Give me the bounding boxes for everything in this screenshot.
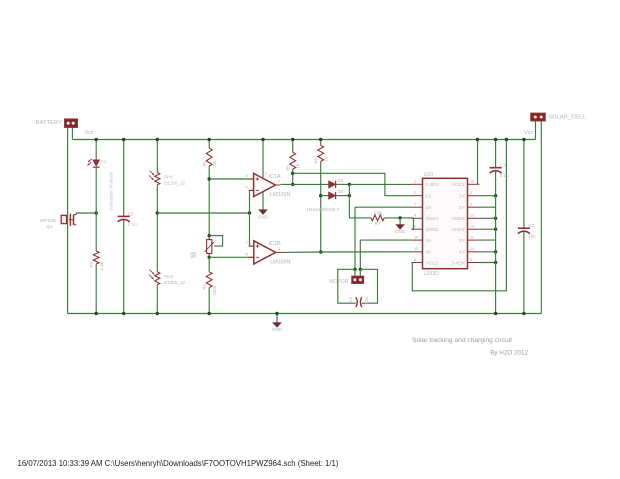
svg-text:10k: 10k: [212, 160, 217, 168]
photoresistor PH2 D1150_12: [149, 270, 186, 285]
svg-text:L293D: L293D: [424, 271, 440, 277]
svg-text:LM339N: LM339N: [270, 192, 290, 198]
svg-text:BATTERY: BATTERY: [36, 120, 62, 126]
svg-text:12: 12: [470, 214, 474, 218]
wire GND4 to bus: [479, 228, 495, 230]
svg-text:Vcc: Vcc: [524, 130, 533, 136]
svg-text:9: 9: [470, 258, 472, 262]
resistor R1: [202, 148, 217, 168]
capacitor C4: [518, 223, 536, 238]
wire rail to C2: [123, 140, 125, 217]
junction rail x506: [505, 138, 508, 141]
wire motor pins stubs: [355, 269, 360, 276]
wire rail to R5: [292, 140, 294, 153]
wire VCC2 route to Vcc bus: [412, 140, 506, 291]
wire trimpot body: [208, 236, 210, 258]
svg-text:7: 7: [414, 203, 416, 207]
svg-text:GND4: GND4: [451, 227, 464, 232]
wire R5 to junction y173: [292, 169, 294, 184]
pin 9 3-4EN U20: [451, 258, 479, 265]
svg-text:10u: 10u: [364, 296, 369, 304]
junction bottom x523: [522, 312, 525, 315]
svg-text:R5: R5: [285, 164, 290, 170]
op-amp U20 L293D body: [423, 172, 468, 277]
svg-text:R2: R2: [202, 283, 207, 289]
junction bus x495 row 1Y: [494, 194, 497, 197]
junction x292 y173: [291, 172, 294, 175]
capacitor C3 snubber: [348, 296, 369, 307]
wire 3A corner to motor pin 2: [360, 239, 411, 241]
wire R7 to GND1 pin: [384, 217, 413, 219]
svg-text:0.1u: 0.1u: [500, 173, 509, 178]
svg-text:4: 4: [245, 185, 247, 189]
LED D1: [87, 159, 106, 167]
svg-text:GND2: GND2: [426, 227, 439, 232]
wire rail to PH1: [156, 140, 158, 173]
junction bus x495 row 3-4EN: [494, 261, 497, 264]
svg-text:MOTOR: MOTOR: [329, 279, 348, 285]
op-amp IC1A LM339N: [245, 171, 290, 198]
junction node A: [95, 211, 98, 214]
junction node B x157 y213: [156, 211, 159, 214]
pin 12 GND3 U20: [451, 214, 479, 221]
svg-text:GND3: GND3: [451, 216, 464, 221]
wire R1 to junction y179: [208, 166, 210, 235]
svg-text:2Y: 2Y: [459, 205, 466, 210]
junction bus x495 row GND3: [494, 217, 497, 220]
svg-text:PH2: PH2: [164, 274, 173, 279]
svg-text:1k: 1k: [296, 163, 301, 168]
wire 2A row to motor column: [355, 206, 412, 208]
junction rail x157: [156, 138, 159, 141]
trimpot R3 wiper loop: [209, 236, 222, 247]
wire 1Y to bus: [479, 195, 495, 197]
status bar text: [18, 459, 339, 468]
wire GND bottom rail: [68, 313, 542, 315]
wire motor pin1 vertical: [354, 207, 356, 269]
wire trimpot to IC1B noninverting input: [209, 256, 254, 258]
pin 2 1A U20: [412, 191, 433, 198]
transistor Q1 IRF540: [40, 214, 76, 230]
diode D2 1N4148: [329, 189, 344, 199]
capacitor C1: [490, 162, 510, 178]
wire 3Y to bus: [479, 239, 495, 241]
svg-text:4A: 4A: [426, 250, 433, 255]
svg-text:6: 6: [246, 252, 248, 256]
junction bus x495 row 4Y: [494, 250, 497, 253]
svg-text:C2: C2: [128, 211, 134, 216]
junction bottom x495: [494, 312, 497, 315]
wire 2Y to bus: [479, 206, 495, 208]
resistor R5: [285, 152, 300, 170]
svg-text:100k: 100k: [212, 285, 217, 295]
wire solar left pin to rail: [535, 121, 537, 140]
svg-text:GND: GND: [395, 229, 406, 234]
label diodes value 1N4148DO35-7: [306, 207, 340, 213]
svg-text:1Y: 1Y: [459, 194, 466, 199]
svg-text:2: 2: [414, 191, 416, 195]
svg-text:U20: U20: [424, 172, 434, 178]
capacitor C2: [118, 211, 137, 226]
svg-text:R6: R6: [313, 157, 318, 163]
svg-text:C1: C1: [500, 162, 506, 167]
node Vcc label right: [524, 130, 533, 136]
wire D3 cathode stub: [336, 183, 350, 185]
svg-text:Vcc: Vcc: [85, 130, 94, 136]
pin 10 3A U20: [412, 236, 433, 243]
label Darlington note: [109, 171, 114, 211]
svg-text:0.1u: 0.1u: [128, 221, 137, 226]
svg-text:100k: 100k: [373, 211, 383, 216]
svg-text:SOLAR_CELL: SOLAR_CELL: [548, 115, 586, 121]
wire node B to comparator inputs: [157, 212, 249, 214]
ground symbol near R7: [395, 218, 406, 234]
svg-text:D2: D2: [338, 189, 344, 194]
svg-text:2A: 2A: [426, 205, 433, 210]
svg-text:D3: D3: [338, 178, 344, 183]
node Vcc label left: [85, 130, 94, 136]
wire trimpot to R2: [208, 257, 210, 272]
svg-text:4Y: 4Y: [459, 250, 466, 255]
title text: [412, 337, 512, 344]
svg-text:3Y: 3Y: [459, 238, 466, 243]
svg-text:5: 5: [414, 225, 416, 229]
svg-text:3-4EN: 3-4EN: [451, 260, 464, 265]
wire to IC1B input: [250, 213, 254, 246]
wire motor snubber loop right: [360, 269, 377, 303]
junction x349 y195: [348, 194, 351, 197]
wire PH2 to bottom rail: [156, 285, 158, 314]
svg-text:D1150_12: D1150_12: [164, 280, 185, 285]
pin 7 2A U20: [412, 203, 433, 210]
junction x292 y184 on IC1A output: [291, 183, 294, 186]
svg-text:1.5k: 1.5k: [99, 261, 104, 270]
wire VCC1 to rail: [477, 140, 479, 185]
junction x349 y184: [348, 183, 351, 186]
wire R2 to bottom rail: [208, 288, 210, 314]
svg-text:Solar tracking and charging ci: Solar tracking and charging circuit: [412, 337, 512, 344]
junction bottom x209: [208, 312, 211, 315]
wire C2 to bottom rail: [123, 220, 125, 314]
svg-text:C4: C4: [528, 223, 534, 228]
svg-text:1N4148DO35-7: 1N4148DO35-7: [306, 207, 340, 213]
pin 15 4A U20: [412, 247, 433, 254]
svg-text:4: 4: [414, 214, 416, 218]
junction bus x495 row GND4: [494, 228, 497, 231]
svg-text:8: 8: [414, 258, 416, 262]
junction x209 y179: [208, 177, 211, 180]
wire motor snubber loop left: [338, 269, 356, 303]
svg-text:R4: R4: [89, 261, 94, 267]
junction rail x124: [122, 138, 125, 141]
svg-text:13: 13: [470, 225, 474, 229]
junction rail x263: [261, 138, 264, 141]
svg-text:1: 1: [278, 247, 280, 251]
junction bottom x96: [95, 312, 98, 315]
svg-text:By H2O 2012: By H2O 2012: [490, 350, 528, 357]
svg-text:6: 6: [470, 203, 472, 207]
pin 4 GND1 U20: [412, 214, 439, 221]
wire D2 cathode stub: [336, 195, 350, 197]
svg-text:3A: 3A: [426, 238, 433, 243]
svg-text:Darlington W-diode: Darlington W-diode: [109, 171, 114, 211]
svg-text:C3: C3: [348, 296, 353, 302]
svg-text:VCC1: VCC1: [452, 182, 465, 187]
diode D3 1N4148: [329, 178, 344, 188]
svg-text:1A: 1A: [426, 194, 433, 199]
wire PH1 to node B: [156, 185, 158, 272]
ground symbol IC1A: [258, 192, 269, 220]
wire R6 column down: [320, 161, 322, 252]
wire to IC1A inverting input: [250, 190, 254, 213]
svg-text:1k: 1k: [324, 156, 329, 161]
svg-text:2: 2: [278, 180, 280, 184]
svg-text:16: 16: [470, 180, 474, 184]
junction rail x320: [319, 138, 322, 141]
svg-text:10u: 10u: [528, 234, 536, 239]
svg-text:PH1: PH1: [164, 175, 173, 180]
junction rail x495: [494, 138, 497, 141]
wire rail to R6: [320, 140, 322, 146]
junction motor pin1 on loop: [353, 268, 356, 271]
pin 6 2Y U20: [459, 203, 480, 210]
wire R5 node to 1A pin: [293, 173, 412, 195]
svg-text:7: 7: [246, 241, 248, 245]
pin 14 4Y U20: [459, 247, 480, 254]
resistor R7 100k: [371, 211, 384, 226]
resistor R6: [313, 145, 328, 163]
op-amp IC1B LM339N: [246, 241, 291, 266]
pin 11 3Y U20: [459, 236, 480, 243]
svg-text:D1150_12: D1150_12: [164, 181, 185, 186]
pin 3 1Y U20: [459, 191, 480, 198]
junction x320 y252 IC1B output net: [319, 250, 322, 253]
svg-text:1-2EN: 1-2EN: [426, 182, 439, 187]
photoresistor PH1 D1150_12: [149, 171, 186, 186]
svg-text:LM339N: LM339N: [270, 259, 290, 265]
wire 3-4EN to bus: [479, 262, 495, 264]
wire C1 bus to bottom rail: [495, 171, 497, 313]
svg-text:10: 10: [414, 236, 418, 240]
junction x249 y213: [248, 211, 251, 214]
svg-text:10k: 10k: [189, 251, 194, 259]
svg-text:11: 11: [470, 236, 474, 240]
junction x400 y217: [398, 216, 401, 219]
svg-text:GND1: GND1: [426, 216, 439, 221]
connector BATTERY J1: [36, 119, 78, 127]
wire battery right pin drop: [71, 128, 73, 140]
wire rail to C4: [523, 140, 525, 229]
svg-text:D1: D1: [100, 159, 106, 164]
junction motor pin2 on loop: [359, 268, 362, 271]
wire rail to IC1A V+: [262, 140, 264, 178]
pin 5 GND2 U20: [412, 225, 439, 232]
wire LED D1 to node A: [95, 167, 97, 251]
svg-text:1: 1: [414, 180, 416, 184]
wire D3 row to 1-2EN pin: [349, 183, 411, 185]
wire solar right pin down: [540, 121, 542, 314]
svg-text:R7: R7: [375, 221, 381, 226]
wire rail to LED D1: [95, 140, 97, 160]
wire diode junction down to R7: [349, 184, 371, 218]
junction bottom x157: [156, 312, 159, 315]
wire C4 to bottom rail: [523, 232, 525, 314]
svg-text:14: 14: [470, 247, 474, 251]
junction trimpot top: [208, 234, 211, 237]
svg-text:3: 3: [470, 191, 472, 195]
wire GND1-GND2 bracket: [412, 218, 414, 229]
connector MOTOR J2: [329, 276, 363, 285]
svg-text:Q1: Q1: [46, 224, 53, 230]
wire rail to C1: [495, 140, 497, 168]
svg-text:3: 3: [265, 171, 267, 175]
wire Q1 drain to node A: [76, 213, 96, 215]
junction bottom x124: [122, 312, 125, 315]
junction bottom x277: [275, 312, 278, 315]
junction rail x292: [291, 138, 294, 141]
svg-text:15: 15: [414, 247, 418, 251]
ground symbol bottom: [272, 314, 283, 333]
wire IC1B output row to 4A: [283, 251, 412, 254]
svg-text:R1: R1: [202, 160, 207, 166]
wire R4 to bottom rail: [95, 264, 97, 314]
pin 8 VCC2 U20: [412, 258, 439, 265]
wire rail to R1: [208, 140, 210, 149]
svg-text:GND: GND: [272, 327, 283, 332]
svg-text:VCC2: VCC2: [426, 260, 439, 265]
wire battery negative column: [67, 128, 69, 314]
junction trimpot bottom: [208, 256, 211, 259]
junction rail x477: [476, 138, 479, 141]
svg-text:5: 5: [245, 174, 247, 178]
wire 4Y to bus: [479, 251, 495, 253]
wire motor pin2 vertical: [359, 240, 361, 269]
wire Vcc top rail: [72, 139, 535, 141]
wire D2 anode row: [321, 195, 329, 197]
junction rail x523: [522, 138, 525, 141]
wire IC1A output row: [281, 183, 329, 185]
junction rail x96: [95, 138, 98, 141]
pin 16 VCC1 U20: [452, 180, 479, 187]
junction rail x209: [208, 138, 211, 141]
junction x320 y195 D2 anode net: [319, 194, 322, 197]
svg-text:GND: GND: [258, 214, 269, 219]
subtitle text: [490, 350, 528, 357]
pin 1 1-2EN U20: [412, 180, 439, 187]
trimpot R3: [189, 240, 213, 259]
connector SOLAR_CELL J3: [531, 113, 587, 121]
wire GND3 to bus: [479, 217, 495, 219]
svg-text:16/07/2013 10:33:39 AM C:\Use: 16/07/2013 10:33:39 AM C:\Users\henryh\D…: [18, 459, 339, 468]
wire junction to IC1A noninverting input: [209, 178, 253, 180]
svg-text:IRF540: IRF540: [40, 218, 56, 224]
resistor R2: [202, 272, 217, 296]
resistor R4: [89, 251, 104, 270]
pin 13 GND4 U20: [451, 225, 479, 232]
